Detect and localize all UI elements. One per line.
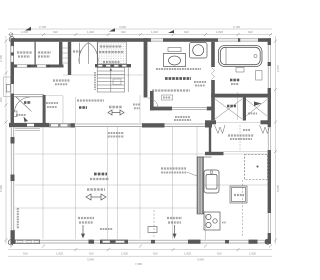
svg-text:1,820: 1,820 [21,30,28,34]
svg-text:1,820: 1,820 [121,252,128,256]
svg-text:1,820: 1,820 [184,252,191,256]
svg-text:2,730: 2,730 [233,25,240,29]
svg-text:7,280: 7,280 [135,262,142,266]
svg-text:2,730: 2,730 [0,55,3,62]
svg-text:1,820: 1,820 [216,30,223,34]
svg-text:5,005: 5,005 [276,185,280,192]
svg-text:5,460: 5,460 [0,185,3,192]
svg-text:2,275: 2,275 [276,65,280,72]
svg-text:910: 910 [248,30,253,34]
svg-text:910: 910 [153,252,158,256]
svg-text:2,730: 2,730 [39,25,46,29]
svg-text:910: 910 [89,252,94,256]
svg-text:1,820: 1,820 [56,252,63,256]
svg-text:910: 910 [0,97,3,102]
svg-text:1,820: 1,820 [87,30,94,34]
svg-text:1,820: 1,820 [151,30,158,34]
svg-text:910: 910 [121,30,126,34]
svg-text:3,640: 3,640 [197,257,204,261]
svg-text:910: 910 [53,30,58,34]
svg-text:3,640: 3,640 [119,25,126,29]
svg-text:910: 910 [217,252,222,256]
svg-text:910: 910 [184,30,189,34]
svg-text:1,820: 1,820 [249,252,256,256]
svg-text:910: 910 [23,252,28,256]
svg-text:3,640: 3,640 [87,257,94,261]
